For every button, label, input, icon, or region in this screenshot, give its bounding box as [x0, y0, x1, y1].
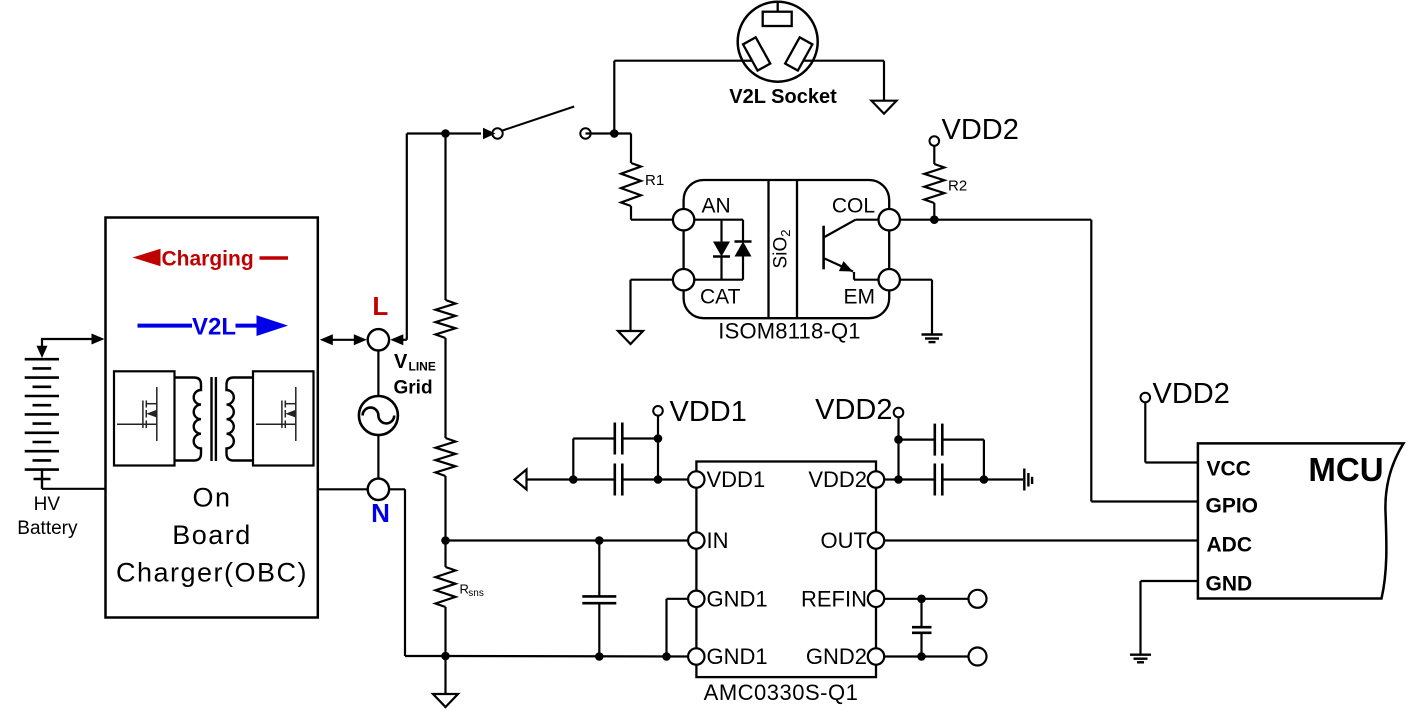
svg-text:sns: sns — [468, 588, 484, 599]
svg-text:OUT: OUT — [821, 528, 867, 553]
SiO2 barrier right — [796, 180, 798, 318]
wire AN bus — [694, 219, 743, 221]
resistor divider upper — [436, 300, 456, 338]
ground CAT — [618, 331, 643, 344]
svg-text:VDD2: VDD2 — [815, 394, 892, 426]
node L terminal — [368, 329, 389, 350]
opto-isolator ISOM8118-Q1 body — [684, 180, 890, 318]
transformer secondary winding — [227, 378, 254, 461]
capacitor C3 (VDD2 top) — [899, 439, 935, 441]
wire — [444, 541, 446, 568]
pin VDD2 — [868, 471, 884, 487]
V2L blue arrow — [138, 324, 193, 328]
svg-text:GND2: GND2 — [806, 644, 867, 669]
wire — [444, 607, 446, 656]
MCU box with torn edge — [1198, 443, 1404, 598]
svg-text:CAT: CAT — [700, 286, 741, 309]
wire up to socket — [613, 61, 615, 134]
junction IN cap — [595, 536, 604, 545]
svg-text:AMC0330S-Q1: AMC0330S-Q1 — [704, 680, 859, 705]
wire battery bottom to OBC — [42, 488, 106, 490]
Charging red arrow — [133, 249, 161, 266]
pin GND2 — [868, 648, 884, 664]
ground divider — [433, 694, 458, 707]
capacitor C-IN — [598, 541, 600, 597]
MOSFET in OBC at x=114 — [114, 371, 175, 465]
svg-text:Battery: Battery — [17, 518, 78, 539]
AMC0330S-Q1 box — [696, 462, 876, 678]
wire COL to MCU GPIO — [900, 219, 1091, 221]
svg-text:V2L: V2L — [192, 314, 236, 341]
wire CAT to ground — [631, 279, 673, 281]
svg-text:V: V — [394, 351, 408, 373]
svg-text:R2: R2 — [948, 178, 967, 195]
wire — [444, 476, 446, 541]
transformer primary winding — [175, 378, 202, 461]
svg-text:COL: COL — [832, 195, 875, 218]
svg-text:L: L — [372, 291, 388, 321]
svg-text:GND1: GND1 — [707, 644, 768, 669]
wire GND1 bottom rail — [446, 655, 689, 658]
svg-text:Charger(OBC): Charger(OBC) — [116, 558, 308, 588]
wire — [444, 338, 446, 438]
arrowhead into battery — [37, 346, 48, 358]
junction R2 — [930, 215, 939, 224]
LED D1 (down) — [720, 220, 722, 242]
pin CAT — [673, 269, 694, 290]
junction top rail to divider — [441, 129, 450, 138]
REFIN network — [884, 598, 968, 600]
wire battery top to OBC with arrows — [42, 338, 92, 340]
switch S1 — [492, 128, 502, 138]
svg-text:VDD2: VDD2 — [942, 114, 1019, 146]
pin COL — [879, 209, 900, 230]
pin EM — [879, 269, 900, 290]
open arrow isolated supply — [515, 470, 527, 490]
svg-text:VDD2: VDD2 — [808, 467, 867, 492]
battery bottom terminal — [41, 470, 43, 489]
svg-text:AN: AN — [702, 195, 731, 218]
wire to socket left — [614, 60, 742, 62]
resistor divider lower — [436, 438, 456, 476]
junction socket branch — [610, 129, 619, 138]
capacitor C4 (VDD2 bottom) — [899, 478, 935, 480]
svg-text:GND: GND — [1206, 573, 1253, 596]
pin OUT — [868, 532, 884, 548]
svg-text:EM: EM — [844, 286, 876, 309]
arrow from line into L — [402, 339, 407, 341]
terminal VDD1 — [653, 406, 663, 416]
pin GND1 lower — [688, 648, 704, 664]
chassis ground VDD2 rail — [1023, 469, 1025, 491]
GND2 wire — [884, 655, 968, 657]
pin GND1 upper — [688, 591, 704, 607]
svg-text:R1: R1 — [645, 172, 664, 189]
wire L to AC source — [377, 351, 379, 397]
OBC box — [106, 218, 318, 618]
MOSFET in OBC at x=253 — [253, 371, 314, 465]
svg-text:On: On — [192, 483, 231, 513]
svg-text:Charging: Charging — [162, 248, 254, 271]
svg-text:VCC: VCC — [1207, 458, 1251, 481]
svg-text:N: N — [371, 498, 390, 528]
pin REFIN — [868, 591, 884, 607]
svg-text:V2L Socket: V2L Socket — [729, 86, 837, 108]
terminal VDD2 (AMC) — [894, 408, 904, 418]
ground socket — [872, 101, 897, 114]
node IN junction — [441, 536, 450, 545]
AC source (grid) — [359, 396, 398, 435]
wire to ground — [444, 656, 446, 694]
MCU GND to ground — [1141, 580, 1198, 582]
svg-text:Board: Board — [172, 520, 252, 550]
svg-text:REFIN: REFIN — [801, 586, 867, 611]
wire CAT bus — [694, 279, 743, 281]
svg-text:VDD1: VDD1 — [670, 396, 747, 428]
svg-text:MCU: MCU — [1308, 451, 1383, 488]
resistor Rsns — [436, 567, 456, 607]
svg-text:ADC: ADC — [1207, 534, 1253, 557]
svg-text:Grid: Grid — [394, 378, 433, 399]
phototransistor Q1 — [822, 226, 825, 270]
wire L riser to switch wire — [406, 134, 408, 340]
wire EM to ground — [900, 279, 932, 281]
pin VDD1 — [688, 471, 704, 487]
wire AC to N — [377, 435, 379, 479]
terminal GND2 out — [969, 648, 987, 666]
wire top rail — [407, 132, 481, 134]
capacitor C2 (VDD1 bottom) — [622, 478, 658, 480]
wire to socket ground — [883, 61, 885, 101]
LED D2 (up) — [742, 220, 744, 242]
SiO2 barrier left — [767, 180, 769, 318]
ground MCU — [1130, 654, 1151, 656]
transformer core — [210, 377, 212, 461]
wire GND1 upper pin link — [665, 599, 667, 657]
svg-text:IN: IN — [707, 528, 729, 553]
svg-text:VDD2: VDD2 — [1153, 378, 1230, 410]
svg-text:GPIO: GPIO — [1206, 495, 1259, 518]
capacitor C1 (VDD1 top) — [622, 437, 658, 439]
V2L socket — [738, 2, 818, 82]
battery HV cells — [25, 358, 59, 361]
capacitor C-REF — [920, 599, 922, 627]
pin IN — [688, 532, 704, 548]
pin AN — [673, 209, 694, 230]
terminal REFIN — [969, 590, 987, 608]
wire OBC to N — [318, 488, 367, 490]
svg-text:VDD1: VDD1 — [707, 467, 766, 492]
ground EM — [922, 333, 943, 335]
node N terminal — [368, 479, 389, 500]
svg-text:ISOM8118-Q1: ISOM8118-Q1 — [718, 319, 860, 344]
arrowhead into OBC — [92, 334, 105, 345]
svg-text:GND1: GND1 — [707, 586, 768, 611]
wire socket right — [810, 60, 884, 62]
svg-text:HV: HV — [34, 494, 61, 515]
terminal VDD2 (R2) — [930, 136, 940, 146]
terminal VDD2 (MCU) — [1141, 393, 1151, 403]
double arrow OBC to L — [331, 339, 355, 341]
wire switch to R1 — [586, 132, 632, 134]
wire IN from divider — [446, 539, 689, 541]
wire N to bottom rail — [388, 488, 405, 490]
svg-text:LINE: LINE — [409, 360, 436, 374]
node GND1 junction — [441, 652, 450, 661]
wire OUT to MCU ADC — [884, 539, 1198, 541]
resistor R1 — [630, 134, 632, 164]
wire divider chain — [444, 134, 446, 301]
